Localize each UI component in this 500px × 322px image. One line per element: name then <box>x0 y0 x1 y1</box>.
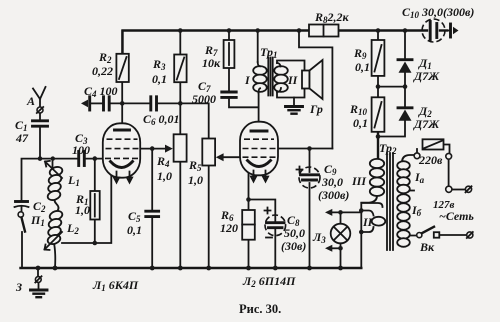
wire R4 bottom to rail <box>179 162 181 268</box>
wire fuse to mains terminal <box>444 145 466 190</box>
SECTION: wires <box>21 31 467 290</box>
svg-text:220в: 220в <box>418 153 443 167</box>
wire C10 output arrow lead <box>440 30 450 32</box>
coil L1 <box>45 161 64 202</box>
arrow into R5 <box>216 153 224 161</box>
wire D1 top lead <box>404 31 406 59</box>
resistor R9 <box>372 40 385 76</box>
wire screen node g2 L2 <box>278 148 333 150</box>
svg-text:II: II <box>362 215 374 229</box>
wire R5 bottom to rail <box>208 166 210 269</box>
winding Ia <box>397 161 410 193</box>
wire C2 to P1 to rail <box>21 207 24 268</box>
terminal arrow right of C10 <box>451 24 459 37</box>
switch P1 <box>18 212 25 232</box>
capacitor C3 <box>79 152 85 166</box>
fuse 220v <box>414 139 452 159</box>
resistor R7 <box>224 40 235 68</box>
svg-text:0,22: 0,22 <box>92 64 113 78</box>
svg-text:R82,2к: R82,2к <box>314 10 350 25</box>
resistor R1 <box>90 191 99 220</box>
wire L2 bottom to rail <box>54 241 56 268</box>
resistor R3 <box>174 55 186 83</box>
svg-text:C4 100: C4 100 <box>84 84 118 99</box>
capacitor C2 variable <box>15 202 29 208</box>
terminal arrow left of C4 <box>81 97 90 110</box>
winding II heater <box>372 217 386 226</box>
resistor R4 <box>174 134 187 161</box>
wire ground branch <box>37 268 40 290</box>
svg-text:1,0: 1,0 <box>157 169 172 183</box>
svg-text:1,0: 1,0 <box>75 203 90 217</box>
wire L1-L2 link <box>55 196 59 212</box>
winding Ib <box>397 194 410 247</box>
wire C5 bottom to rail <box>151 219 153 269</box>
capacitor C4 <box>104 97 110 110</box>
transformer Tr1 <box>253 58 288 96</box>
heater arrow top <box>325 209 332 216</box>
wire bottom ground rail <box>21 267 362 269</box>
wire Tr2 Ia top to fuse <box>402 149 417 162</box>
lamp L3 <box>331 224 351 244</box>
ground earth symbol <box>31 276 48 297</box>
svg-text:Д7Ж: Д7Ж <box>413 117 440 131</box>
resistor R5 <box>202 139 215 166</box>
winding III <box>361 159 384 203</box>
tube L1 6K4P <box>103 123 140 182</box>
wire R3 leads <box>179 31 181 135</box>
svg-text:10к: 10к <box>202 56 221 70</box>
speaker Gr <box>302 60 323 99</box>
svg-text:(30в): (30в) <box>281 239 306 253</box>
mains terminal top <box>446 186 472 192</box>
wire R6 leads <box>248 200 250 269</box>
wire C7 to anode node <box>229 100 259 108</box>
SECTION: components <box>15 19 473 297</box>
svg-text:~Сеть: ~Сеть <box>439 209 474 223</box>
wire R1 top lead <box>94 159 96 191</box>
svg-text:З: З <box>15 280 22 294</box>
wire R8 branch to screen node <box>299 31 332 149</box>
svg-text:0,1: 0,1 <box>355 60 370 74</box>
wire R9 R10 middle link <box>378 76 405 97</box>
wire antenna to C1 to node A <box>39 113 41 159</box>
capacitor C9 electrolytic <box>297 167 321 189</box>
wire grid bus y158.6 left section <box>22 159 104 200</box>
wire heater return vertical <box>361 203 382 268</box>
svg-text:C6 0,01: C6 0,01 <box>143 112 180 127</box>
heater arrow bottom <box>325 245 332 252</box>
ground under speaker <box>286 98 303 114</box>
wire top supply rail <box>123 31 448 54</box>
wire C9 column to rail <box>309 149 311 269</box>
switch Vk <box>417 227 440 238</box>
svg-text:Гр: Гр <box>309 102 323 116</box>
wire grid L2 from R5 <box>222 156 240 158</box>
svg-text:Д7Ж: Д7Ж <box>413 69 440 83</box>
wire heater winding II bracket <box>361 211 373 233</box>
svg-text:Л1 6К4П: Л1 6К4П <box>92 278 139 293</box>
wire Tr1 primary top lead <box>257 31 259 63</box>
capacitor C7 <box>222 92 236 97</box>
capacitor C8 electrolytic <box>265 208 286 238</box>
wire R1 bottom lead <box>94 220 96 244</box>
capacitor C6 <box>151 97 157 110</box>
wire C8 bottom to rail <box>274 230 276 269</box>
svg-text:0,1: 0,1 <box>127 223 142 237</box>
diode D1 <box>398 60 412 73</box>
mains terminal bottom <box>467 232 473 238</box>
wire lamp bottom lead <box>332 243 341 268</box>
svg-text:50,0: 50,0 <box>284 226 305 240</box>
coil L2 <box>45 209 64 249</box>
resistor R6 <box>242 210 255 240</box>
wire R7 leads <box>228 31 230 91</box>
svg-text:III: III <box>351 174 367 188</box>
svg-text:0,1: 0,1 <box>152 72 167 86</box>
wire Ia Ib middle tap <box>402 190 414 192</box>
wire cathode bus y243 <box>62 171 111 244</box>
diode D2 <box>398 108 412 121</box>
svg-text:Вк: Вк <box>419 240 435 254</box>
capacitor C10 electrolytic <box>422 19 445 42</box>
wire rectifier bottom node <box>378 121 405 158</box>
wire coupling bus y103.4 <box>91 103 209 138</box>
svg-text:А: А <box>26 94 35 108</box>
svg-text:(300в): (300в) <box>318 188 349 202</box>
resistor R10 <box>372 97 385 132</box>
wire cathode L2 to R6 C8 node <box>249 171 276 222</box>
svg-text:II: II <box>287 73 299 87</box>
wire Tr1 secondary to speaker loop <box>277 61 305 98</box>
capacitor C5 <box>146 211 159 216</box>
svg-text:0,1: 0,1 <box>353 116 368 130</box>
svg-text:47: 47 <box>15 131 29 145</box>
svg-text:100: 100 <box>72 143 90 157</box>
wire lamp top heater bus <box>332 212 361 224</box>
svg-text:Рис. 30.: Рис. 30. <box>239 302 281 316</box>
svg-text:30,0: 30,0 <box>321 175 343 189</box>
wire switch Vk to mains terminal <box>440 234 467 236</box>
antenna A <box>33 87 46 113</box>
wire Tr1 primary bottom to L2 anode <box>258 93 260 129</box>
svg-text:5000: 5000 <box>192 92 216 106</box>
arrow into R4 <box>165 145 173 153</box>
wire R9 top lead <box>377 31 379 41</box>
wire L1 top lead <box>52 159 54 169</box>
wire anode lead L1 tube <box>121 103 123 128</box>
wire Ib bottom to switch Vk <box>402 236 417 244</box>
svg-text:120: 120 <box>220 221 238 235</box>
resistor R2 <box>116 54 128 82</box>
transformer Tr2 core <box>387 153 393 250</box>
wire screen g2 L1 to R4 arrow <box>141 149 168 210</box>
wire R2 leads <box>121 31 123 103</box>
svg-text:Л2 6П14П: Л2 6П14П <box>242 274 296 289</box>
svg-text:1,0: 1,0 <box>188 173 203 187</box>
tube L2 6P14P <box>240 122 278 182</box>
wire D1 D2 link <box>404 73 406 107</box>
capacitor C1 <box>33 121 48 126</box>
resistor R8 <box>309 25 339 37</box>
